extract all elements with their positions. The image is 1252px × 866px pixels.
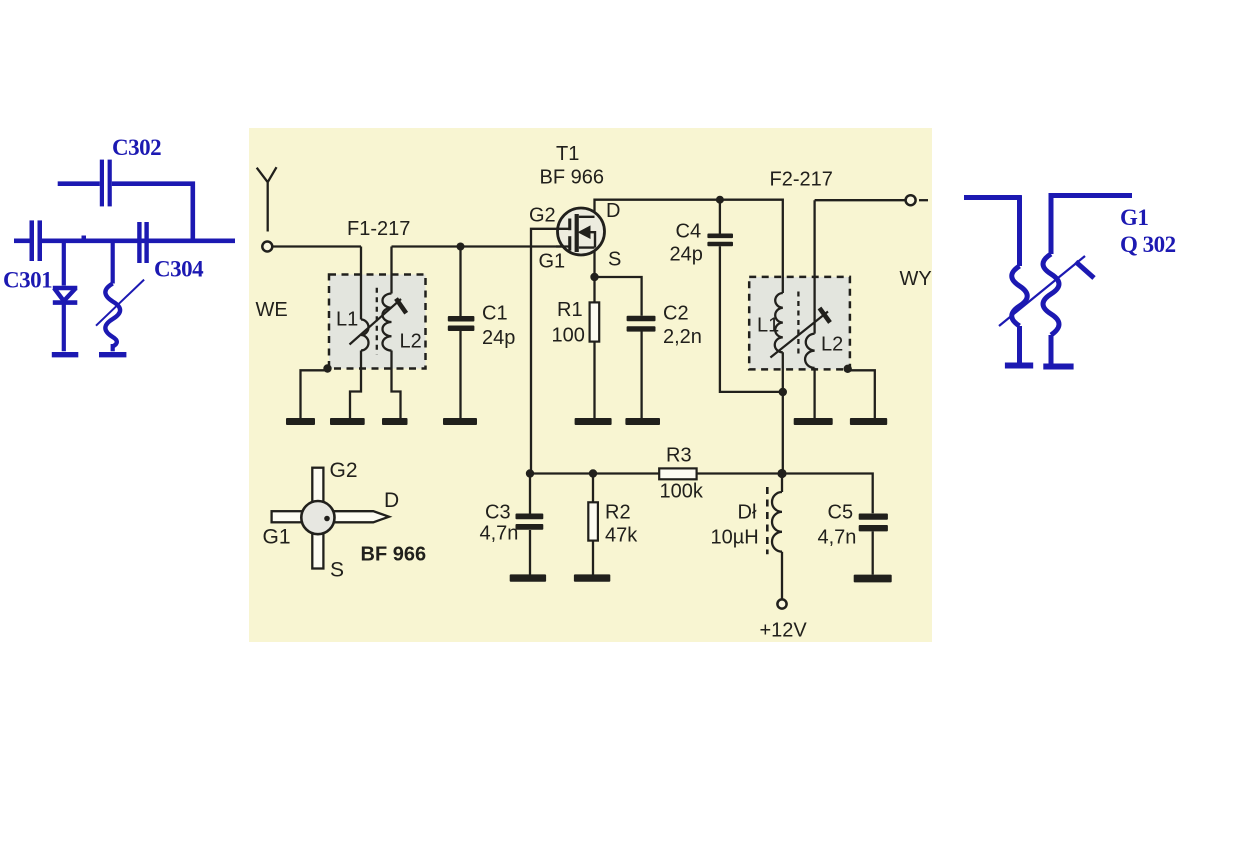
wire WE input bbox=[273, 247, 361, 320]
wire input stub bbox=[14, 239, 30, 244]
svg-text:BF 966: BF 966 bbox=[540, 167, 604, 189]
svg-text:G2: G2 bbox=[330, 459, 358, 482]
svg-text:G1: G1 bbox=[263, 526, 291, 549]
svg-text:C3: C3 bbox=[485, 502, 511, 524]
svg-text:C304: C304 bbox=[154, 257, 204, 282]
svg-text:D: D bbox=[606, 200, 620, 222]
substrate arrow bbox=[578, 225, 591, 239]
body bbox=[301, 501, 334, 534]
ground R1 bbox=[575, 418, 612, 425]
junction G2 bias node bbox=[526, 469, 534, 477]
wire top left bbox=[964, 195, 1022, 200]
junction C4/F2 primary node bbox=[779, 388, 787, 396]
wire G2 lead and bias drop bbox=[531, 229, 570, 474]
svg-text:24p: 24p bbox=[670, 244, 703, 266]
junction F2 secondary tap bbox=[844, 365, 852, 373]
ground F2 L2 bbox=[794, 418, 833, 425]
capacitor C2 plates bbox=[627, 316, 656, 332]
drain/source stubs bbox=[579, 217, 595, 248]
junction choke node bbox=[777, 469, 786, 478]
svg-text:4,7n: 4,7n bbox=[818, 527, 857, 549]
svg-text:C301: C301 bbox=[3, 268, 52, 293]
svg-text:C2: C2 bbox=[663, 303, 689, 325]
svg-text:L1: L1 bbox=[757, 315, 779, 337]
inductor L2 (F2 secondary) with output bbox=[805, 200, 906, 418]
svg-text:G2: G2 bbox=[529, 205, 556, 227]
trimmer arrow F2 bbox=[770, 308, 830, 358]
ground C2 bbox=[625, 418, 660, 425]
wire F2 tap to ground bbox=[848, 370, 875, 418]
wire bias bus bbox=[530, 474, 873, 514]
transistor pinout icon BF966 bbox=[263, 459, 427, 582]
junction R2 node bbox=[589, 469, 597, 477]
svg-text:C4: C4 bbox=[676, 221, 702, 243]
svg-text:F1-217: F1-217 bbox=[347, 218, 410, 240]
wire main node line bbox=[42, 239, 235, 244]
svg-text:G1: G1 bbox=[539, 251, 566, 273]
capacitor C3 plates bbox=[516, 514, 544, 530]
output terminal WY bbox=[906, 195, 916, 205]
svg-text:L2: L2 bbox=[821, 334, 843, 356]
wire box tap to ground bbox=[301, 370, 328, 418]
svg-text:S: S bbox=[330, 559, 344, 582]
tuning arrow bbox=[999, 256, 1085, 326]
resistor R3 bbox=[659, 468, 696, 479]
ground C3 bbox=[510, 574, 546, 581]
ground C1 bbox=[443, 418, 477, 425]
capacitor C5 leads bbox=[872, 531, 874, 574]
wire drain net bbox=[595, 200, 783, 293]
capacitor C4 leads bbox=[720, 200, 783, 392]
svg-text:47k: 47k bbox=[605, 525, 638, 547]
svg-text:L1: L1 bbox=[336, 309, 358, 331]
svg-text:100: 100 bbox=[552, 325, 585, 347]
lead S bbox=[312, 533, 323, 569]
ground R2 bbox=[574, 574, 610, 581]
svg-text:S: S bbox=[608, 249, 621, 271]
capacitor C3 leads bbox=[529, 474, 531, 575]
wire top right bbox=[1049, 193, 1133, 198]
capacitor input plates bbox=[30, 220, 43, 261]
svg-text:L2: L2 bbox=[400, 331, 422, 353]
core F1 bbox=[376, 288, 378, 355]
ground F1 L2 bbox=[382, 418, 408, 425]
inductor tuning coil bbox=[99, 241, 126, 355]
capacitor C302 bbox=[100, 160, 112, 207]
svg-text:G1: G1 bbox=[1120, 205, 1148, 230]
wire blip on node line bbox=[82, 236, 87, 240]
wire L1 bottom to ground bbox=[350, 351, 361, 419]
svg-text:D: D bbox=[384, 489, 399, 512]
resistor R1 bbox=[590, 302, 600, 341]
lead G2 bbox=[312, 468, 323, 504]
junction drain/C4 node bbox=[716, 196, 724, 204]
wire C302 left bbox=[58, 181, 100, 186]
junction source node bbox=[590, 273, 598, 281]
junction F1 primary tap bbox=[323, 364, 331, 372]
svg-text:F2-217: F2-217 bbox=[770, 169, 833, 191]
trimmer arrow F1 bbox=[350, 299, 407, 345]
channel bar bbox=[575, 214, 579, 252]
transistor T1 BF966 symbol bbox=[556, 208, 605, 255]
choke core dashes bbox=[766, 487, 769, 554]
antenna bbox=[257, 167, 277, 251]
inductor right winding bbox=[1043, 194, 1074, 367]
inductor Dl choke bbox=[772, 474, 782, 600]
ground F2 tap bbox=[850, 418, 887, 425]
transformer F2 box bbox=[749, 277, 850, 370]
wire F2 primary bottom to bus bbox=[782, 352, 784, 473]
svg-text:4,7n: 4,7n bbox=[480, 523, 519, 545]
resistor R2 leads bbox=[592, 474, 594, 575]
capacitor C1 leads bbox=[459, 247, 461, 419]
lead G1 bbox=[272, 511, 304, 522]
lead D bbox=[333, 511, 389, 522]
scan background bbox=[249, 128, 932, 642]
svg-text:WE: WE bbox=[256, 299, 288, 321]
inductor L1 (F2 primary) bbox=[775, 293, 783, 352]
svg-text:R2: R2 bbox=[605, 502, 631, 524]
junction C1/G1 node bbox=[457, 243, 465, 251]
svg-text:R1: R1 bbox=[557, 299, 583, 321]
resistor R2 bbox=[588, 502, 598, 540]
svg-text:T1: T1 bbox=[556, 143, 579, 165]
inductor L2 (F1 secondary) bbox=[382, 247, 391, 351]
wire G1 signal line bbox=[392, 245, 571, 247]
diode C301 varicap bbox=[52, 241, 79, 355]
svg-text:2,2n: 2,2n bbox=[663, 326, 702, 348]
svg-text:Dł: Dł bbox=[738, 502, 757, 524]
arrow through coil bbox=[96, 280, 144, 326]
gate bars bbox=[568, 219, 571, 231]
ground F1 L1 bbox=[330, 418, 365, 425]
capacitor C4 plates bbox=[707, 234, 733, 247]
resistor R1 leads bbox=[593, 277, 595, 418]
ground F1 tap bbox=[286, 418, 315, 425]
gate leads inside bbox=[556, 229, 570, 247]
svg-text:10µH: 10µH bbox=[711, 527, 759, 549]
+12V terminal bbox=[777, 599, 786, 608]
svg-text:C1: C1 bbox=[482, 303, 508, 325]
ground C5 bbox=[854, 575, 892, 583]
svg-text:C5: C5 bbox=[828, 502, 854, 524]
wire L2 bottom to ground bbox=[392, 351, 401, 419]
inductor L1 (F1 primary) bbox=[361, 320, 369, 351]
capacitor C1 plates bbox=[448, 316, 475, 331]
inductor left winding bbox=[1005, 196, 1033, 366]
wire C302 right drop bbox=[112, 181, 195, 240]
svg-text:24p: 24p bbox=[482, 327, 515, 349]
core F2 bbox=[797, 292, 799, 354]
svg-text:Q 302: Q 302 bbox=[1120, 232, 1176, 257]
capacitor C5 plates bbox=[859, 514, 888, 532]
svg-text:C302: C302 bbox=[112, 135, 161, 160]
svg-text:WY: WY bbox=[900, 268, 932, 290]
svg-text:BF 966: BF 966 bbox=[361, 544, 427, 566]
capacitor C304 plates bbox=[137, 222, 149, 263]
wire source net bbox=[595, 248, 642, 418]
svg-text:+12V: +12V bbox=[760, 620, 808, 642]
svg-text:100k: 100k bbox=[660, 481, 704, 503]
svg-text:R3: R3 bbox=[666, 445, 692, 467]
transformer F1 box bbox=[329, 275, 426, 369]
wire output stub bbox=[919, 199, 928, 201]
